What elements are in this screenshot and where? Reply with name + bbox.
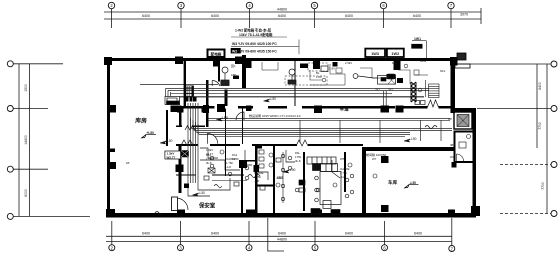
double door garage corridor	[296, 140, 308, 146]
corridor bottom wall seg2	[210, 144, 240, 146]
svg-text:-L50: -L50	[199, 191, 206, 195]
wire run 3	[188, 183, 210, 196]
wall stair west	[184, 58, 186, 107]
small circle r3	[418, 88, 422, 92]
north room bottom wall seg1	[176, 126, 182, 127]
small eq box r3	[414, 70, 419, 75]
right tick row A	[457, 63, 551, 65]
stair enclosure bottom-mid left	[303, 152, 305, 211]
svg-text:敷设说明 4X25 WDZC-YJY-0.6/1kV-FC: 敷设说明 4X25 WDZC-YJY-0.6/1kV-FC	[249, 113, 302, 118]
grid bubble 2 top	[108, 2, 114, 8]
svg-text:1B0: 1B0	[231, 73, 237, 77]
wire run r3	[360, 68, 388, 78]
small black box with leader	[411, 37, 426, 58]
black boxes stair bottom	[311, 209, 320, 215]
arrow security	[193, 193, 199, 196]
column bottom x449	[448, 210, 455, 217]
svg-text:1B: 1B	[126, 161, 130, 165]
arrow LEB	[216, 118, 222, 121]
wc left wall	[454, 131, 456, 163]
column top-right corner	[450, 57, 458, 66]
upper cable band	[166, 88, 430, 90]
column mid junction	[217, 104, 225, 112]
svg-text:保安室: 保安室	[198, 202, 216, 210]
outdoor unit blocks	[455, 53, 470, 68]
switch box b	[234, 182, 239, 186]
door arc pump room	[212, 80, 229, 86]
stair well room	[320, 172, 341, 205]
wall mark small	[110, 149, 115, 153]
svg-text:7700: 7700	[541, 182, 545, 190]
svg-text:6400: 6400	[414, 232, 422, 236]
svg-text:1W1: 1W1	[414, 37, 421, 41]
wire run 4	[198, 178, 230, 190]
top wall	[104, 58, 457, 61]
grid tick 3	[180, 9, 182, 29]
right vertical dim line 1	[536, 64, 538, 148]
svg-text:3970: 3970	[460, 13, 468, 17]
svg-text:6400: 6400	[211, 14, 219, 18]
lamp circle a	[210, 156, 214, 160]
left wall	[107, 58, 110, 217]
column top grid5	[313, 58, 320, 69]
lamp circle 7	[373, 174, 377, 178]
svg-text:6400: 6400	[142, 14, 150, 18]
svg-text:W2 YJV 09-600 4X35 150 FC: W2 YJV 09-600 4X35 150 FC	[232, 49, 277, 53]
grid bubble 2 bottom	[109, 245, 115, 251]
wire run 6	[258, 172, 268, 180]
column bottom-right corner	[471, 206, 480, 216]
svg-text:-4-8: -4-8	[254, 179, 259, 183]
wall pump room left	[218, 59, 220, 82]
right dim texts vertical	[538, 82, 545, 190]
column in garage top grid6	[381, 156, 389, 163]
dimension line top	[104, 11, 481, 13]
right tick row B	[477, 108, 551, 110]
svg-text:3kW: 3kW	[258, 143, 264, 147]
toilet partition horizontal	[258, 185, 274, 187]
column corridor grid6	[381, 106, 390, 113]
lamp circle k	[245, 176, 249, 180]
left vertical dim line 1	[18, 64, 20, 217]
grid bubble D left	[7, 213, 13, 219]
pump label	[231, 64, 237, 77]
svg-text:W7: W7	[372, 157, 377, 161]
svg-text:175F: 175F	[232, 157, 239, 161]
motor symbol 3	[353, 74, 358, 79]
door lobby vestibule	[172, 197, 178, 211]
dimension texts top	[142, 8, 468, 19]
thin wall security room top seg1	[176, 174, 196, 175]
wire west of stair	[282, 152, 284, 203]
column top grid4	[235, 57, 243, 64]
section mark line	[268, 218, 284, 251]
svg-text:1.8V: 1.8V	[316, 75, 322, 79]
svg-text:配电箱: 配电箱	[211, 52, 222, 57]
svg-text:2.5kV: 2.5kV	[345, 61, 352, 65]
corridor top wall seg6	[439, 106, 452, 109]
left tick row B	[14, 108, 49, 110]
grid tick 6	[383, 9, 385, 29]
black blob pump label	[233, 76, 239, 80]
grid bubble A right	[551, 61, 557, 67]
grid bubble 5 top	[311, 2, 317, 8]
upper thin line	[140, 84, 218, 86]
svg-text:6400: 6400	[538, 82, 542, 90]
motor symbol 2	[289, 69, 295, 75]
garage top wall	[362, 147, 454, 151]
right tick row C	[500, 164, 551, 166]
arrow bottom room	[283, 170, 289, 173]
svg-text:W5.T7: W5.T7	[167, 155, 176, 159]
grid tick b2	[111, 221, 113, 245]
dark blob left wall	[184, 184, 189, 189]
dashed equipment outline 2	[308, 63, 328, 71]
left tick row A	[14, 63, 64, 65]
room small wall x242 lower	[241, 168, 243, 213]
column small top wall	[333, 62, 338, 67]
left dim texts vertical	[24, 84, 28, 197]
svg-text:梯间箱 100X50: 梯间箱 100X50	[366, 152, 387, 157]
grid bubble 4 bottom	[246, 245, 252, 251]
svg-text:W1: W1	[376, 88, 381, 92]
switch box d	[276, 158, 281, 162]
stair bottom-middle cells	[299, 157, 349, 215]
wire drop b	[339, 120, 341, 143]
grid bubble C left	[7, 166, 13, 172]
band bend down left	[166, 89, 171, 97]
column bottom grid4	[246, 210, 255, 217]
lamp circle f	[288, 166, 292, 170]
right wall lower	[473, 108, 477, 217]
svg-text:-L50: -L50	[166, 139, 173, 143]
column bottom grid5	[314, 210, 322, 217]
left vertical dim line 2	[28, 64, 30, 217]
dimension line bottom 1	[106, 235, 452, 237]
lamp circles stair	[315, 176, 319, 180]
small eq box r1	[336, 68, 342, 73]
zigzag door north room	[185, 126, 195, 131]
small room walls x224	[225, 109, 226, 144]
wire run r2	[330, 64, 345, 74]
grid bubble 5 bottom	[312, 245, 318, 251]
grid bubble D right	[551, 211, 557, 217]
svg-text:-L50: -L50	[410, 137, 417, 141]
wire run 10 zigzag	[214, 185, 222, 188]
grid bubble B left	[7, 106, 13, 112]
svg-text:44800: 44800	[277, 8, 287, 12]
lamp circle d	[245, 166, 249, 170]
dimension line 2	[104, 18, 481, 20]
bottom wall	[106, 213, 476, 218]
schedule row W2	[231, 48, 241, 53]
grid tick b5	[314, 221, 316, 245]
svg-text:6400: 6400	[345, 232, 353, 236]
door mid-left room	[236, 112, 244, 120]
left tick row D	[14, 215, 91, 217]
svg-text:MAL: MAL	[392, 61, 398, 65]
lamp circle i	[350, 174, 354, 178]
lamp circle h	[316, 188, 320, 192]
thin wall security room top seg2	[212, 174, 244, 175]
panel box 2	[208, 168, 215, 173]
hatched wall band	[411, 82, 416, 102]
corridor bottom wall seg3	[252, 144, 297, 146]
lamp circle c	[228, 172, 232, 176]
svg-text:1W3: 1W3	[371, 52, 379, 56]
lamp circle 4	[333, 183, 337, 187]
wire drop a	[299, 120, 301, 143]
column wc corner	[452, 162, 457, 168]
column in garage bottom grid6	[381, 205, 389, 212]
grid bubble 7 bottom	[449, 246, 455, 252]
wall pump room right	[242, 55, 246, 88]
svg-text:回1: 回1	[231, 64, 236, 68]
svg-text:-4-8: -4-8	[226, 165, 231, 169]
corridor top wall seg4	[302, 106, 395, 109]
small circle r1	[322, 78, 326, 82]
corridor thin lines	[208, 118, 450, 120]
svg-text:BDM: BDM	[420, 59, 427, 63]
svg-text:-L50: -L50	[410, 181, 417, 185]
arrow L5 left room	[142, 135, 146, 138]
wavy flex symbol	[425, 126, 437, 129]
wall elevator right vertical	[206, 80, 208, 127]
column mid-left room	[239, 160, 247, 168]
lamp circle e	[288, 156, 292, 160]
eq boxes corridor right	[415, 101, 420, 105]
meter box with border	[208, 50, 252, 69]
arrow mid room	[160, 141, 166, 144]
svg-text:1W2: 1W2	[391, 52, 399, 56]
wire across security	[212, 180, 247, 182]
wavy flex symbol left wall	[155, 212, 163, 215]
north room columns	[177, 108, 184, 113]
svg-text:库房: 库房	[135, 117, 147, 125]
svg-text:6000: 6000	[24, 189, 28, 197]
svg-text:6400: 6400	[413, 14, 421, 18]
small circle r2	[404, 64, 408, 68]
corridor bottom wall seg1	[176, 144, 198, 146]
wire run 5	[245, 150, 252, 165]
column left wall B	[107, 105, 116, 113]
grid tick 4	[249, 9, 251, 29]
svg-text:44800: 44800	[277, 237, 287, 241]
panel symbols left of stair	[299, 180, 305, 185]
panel bank left	[165, 97, 180, 105]
junction toilet nw	[256, 144, 262, 149]
arrow L50 corridor	[264, 99, 270, 102]
wire drop d	[420, 120, 422, 141]
svg-text:4B1: 4B1	[450, 143, 455, 147]
grid bubble 6 top	[380, 2, 386, 8]
grid bubble 3 top	[178, 2, 184, 8]
svg-text:车库: 车库	[388, 179, 398, 186]
lamp circle 2	[269, 163, 273, 167]
switch box a	[204, 176, 209, 180]
north room bottom wall seg2	[192, 126, 205, 127]
column top grid3	[175, 57, 183, 64]
svg-text:6400: 6400	[278, 14, 286, 18]
svg-text:6400: 6400	[278, 232, 286, 236]
corridor top wall seg1	[176, 106, 215, 109]
svg-text:14400: 14400	[24, 135, 28, 145]
toilet partition vertical	[273, 146, 275, 213]
arrow L50 garage	[405, 185, 409, 188]
grid tick b6	[384, 221, 386, 245]
wall stub pump	[225, 90, 228, 107]
grid bubble 3 bottom	[178, 245, 184, 251]
lamp circle j	[350, 190, 354, 194]
right wall upper	[451, 57, 456, 113]
door arc vestibule exit	[208, 134, 218, 144]
dark blobs under stair	[185, 97, 189, 102]
column toilet west wall	[254, 165, 260, 172]
lamp circle 6	[220, 150, 224, 154]
grid tick 7	[450, 9, 452, 29]
grid tick b4	[248, 221, 250, 245]
wire run r5	[415, 74, 428, 76]
wire run 8	[332, 160, 340, 178]
grid bubble A left	[7, 61, 13, 67]
svg-text:13kV 78.1-41.9配电箱: 13kV 78.1-41.9配电箱	[239, 32, 273, 37]
wall left room vertical	[179, 106, 182, 128]
dashed equipment outline	[285, 76, 327, 85]
corridor top wall seg2	[238, 106, 253, 109]
lamp circle b	[210, 164, 214, 168]
svg-text:车道: 车道	[340, 106, 350, 113]
arrow L50 corridor end	[404, 139, 410, 142]
thin wall toilet link	[243, 160, 256, 162]
lamp circle g	[295, 188, 299, 192]
wire run 1	[200, 148, 218, 158]
wc fixtures right	[457, 135, 471, 162]
grid bubble C right	[551, 162, 557, 168]
lamp circle 5	[348, 163, 352, 167]
svg-text:W5: W5	[340, 157, 345, 161]
grid tick 5	[314, 9, 316, 29]
svg-text:6400: 6400	[211, 232, 219, 236]
wire run 2	[200, 160, 240, 170]
svg-text:NF1: NF1	[440, 69, 446, 73]
wire run 9 zigzag	[248, 175, 260, 178]
vertical bundle	[187, 103, 189, 183]
svg-text:3k-8: 3k-8	[206, 161, 212, 165]
right tick row D	[500, 213, 551, 215]
column bottom-left corner	[106, 209, 115, 217]
corridor bottom wall seg4	[308, 144, 363, 146]
column bottom grid3	[177, 210, 185, 217]
double door corridor top	[428, 100, 439, 107]
small room walls x242	[242, 109, 243, 144]
svg-text:+L50: +L50	[147, 131, 155, 135]
wire drop c	[379, 120, 381, 143]
svg-text:W2: W2	[389, 88, 394, 92]
svg-text:W3 YJV 09-600 4X25 100 FC: W3 YJV 09-600 4X25 100 FC	[232, 42, 277, 46]
end tick	[480, 8, 482, 24]
grid bubble 7 top	[448, 2, 454, 8]
svg-text:7700: 7700	[538, 122, 542, 130]
band bend verticals	[384, 91, 387, 106]
wire run r4	[398, 70, 410, 84]
elec room bottom wall	[454, 131, 473, 133]
pump symbol 1	[222, 67, 228, 73]
dimension line bottom 2	[106, 241, 452, 243]
svg-text:6400: 6400	[142, 232, 150, 236]
column mid wall grid3	[176, 165, 184, 173]
box pair 1	[365, 49, 385, 57]
grid bubble B right	[551, 106, 557, 112]
electrical panel room equipment	[454, 112, 472, 129]
fixtures row toilet	[259, 150, 264, 154]
column top x394	[394, 58, 401, 70]
grid bubble 4 top	[246, 2, 252, 8]
equipment rect top-right lobby	[378, 76, 396, 85]
wc bottom wall	[454, 161, 474, 163]
mid cable band	[191, 118, 453, 129]
corridor top wall seg5	[403, 106, 428, 109]
small eq box r2	[388, 74, 394, 79]
corridor top wall seg3	[268, 106, 287, 109]
garage left wall	[362, 147, 366, 213]
stair right ladder	[426, 80, 440, 98]
svg-text:LEB: LEB	[222, 116, 228, 120]
svg-text:W3: W3	[450, 155, 455, 159]
north room right wall	[206, 108, 207, 127]
svg-text:-L50: -L50	[270, 97, 277, 101]
switch box c	[260, 186, 265, 190]
zigzag door vestibule	[181, 140, 193, 146]
right vertical dim line 2	[546, 64, 548, 214]
box pair 2	[387, 49, 404, 57]
toilet block left wall	[255, 146, 258, 213]
grid tick b3	[180, 221, 182, 245]
stair hatch block	[186, 86, 194, 97]
wire run 7	[286, 150, 295, 162]
grid tick 2	[111, 9, 113, 29]
svg-text:6400: 6400	[345, 14, 353, 18]
entrance door bottom-left	[176, 198, 188, 210]
stair enclosure bottom-mid right	[344, 152, 346, 192]
svg-text:-4-8: -4-8	[340, 175, 345, 179]
dimension texts bottom	[142, 232, 422, 242]
wire drop e	[440, 120, 442, 141]
thin wall x295	[294, 61, 295, 106]
svg-text:AP: AP	[448, 117, 452, 121]
grid tick b7	[451, 218, 453, 246]
wire run r1	[310, 70, 322, 80]
wiring polyline top	[262, 62, 278, 70]
column left wall C	[107, 162, 116, 169]
step wall top of right extension	[451, 108, 477, 112]
svg-text:3k-8: 3k-8	[295, 159, 301, 163]
left tick row C	[14, 168, 49, 170]
column corridor grid5	[314, 106, 322, 114]
lamp circle 1	[269, 153, 273, 157]
note 1.3kV box	[165, 151, 181, 159]
grid bubble 6 bottom	[382, 245, 388, 251]
black eq boxes row	[387, 74, 396, 79]
lamp circle 3	[276, 183, 280, 187]
thin wall x225 lower	[225, 146, 226, 176]
column top-left corner	[104, 57, 112, 65]
column corridor x246	[246, 105, 252, 111]
svg-text:4B5: 4B5	[277, 176, 284, 180]
column corridor x395	[396, 106, 404, 113]
schedule bracket	[231, 37, 299, 54]
svg-text:1500: 1500	[24, 84, 28, 92]
column corridor left	[203, 105, 209, 113]
